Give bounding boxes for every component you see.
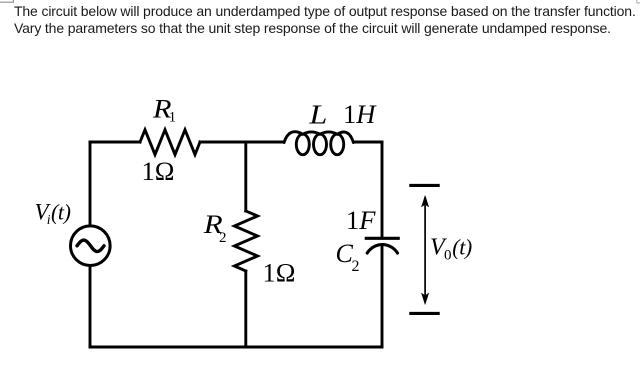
svg-text:1F: 1F: [346, 205, 376, 235]
svg-text:1H: 1H: [343, 99, 377, 129]
wire middle vertical lower: [244, 271, 247, 347]
resistor R2: [234, 211, 257, 271]
capacitor C2 top plate: [366, 237, 398, 240]
inductor L : ring 2: [314, 134, 327, 155]
wire left vertical upper: [89, 142, 92, 225]
output bottom bar: [409, 312, 439, 315]
inductor L : exit arc: [337, 132, 353, 142]
svg-text:1Ω: 1Ω: [263, 258, 296, 288]
table corner mark top-right: [637, 0, 640, 3]
wire middle vertical upper: [244, 142, 247, 211]
wire top-left segment: [90, 141, 140, 144]
resistor R1: [140, 130, 200, 155]
wire R1 to inductor: [200, 141, 284, 144]
svg-text:2: 2: [352, 258, 360, 275]
wire right vertical upper: [381, 142, 384, 238]
source V_i circle: [71, 226, 111, 266]
inductor L : ring 1: [296, 134, 309, 155]
svg-text:L: L: [308, 98, 327, 129]
wire right vertical lower: [381, 246, 384, 347]
svg-text:(t): (t): [51, 200, 71, 225]
svg-text:(t): (t): [452, 235, 472, 260]
svg-text:1: 1: [169, 110, 177, 126]
inductor L : entry arc: [284, 132, 303, 143]
output arrow (double headed): [422, 196, 429, 305]
inductor L : ring 3: [331, 134, 344, 155]
wire inductor to right corner: [353, 141, 382, 144]
capacitor C2 bottom plate (curved): [367, 245, 397, 254]
output top bar: [409, 184, 439, 187]
svg-text:1Ω: 1Ω: [142, 156, 175, 186]
source sine squiggle: [77, 240, 104, 251]
svg-text:0: 0: [444, 248, 452, 264]
inductor L : dome 1-2: [303, 132, 320, 134]
svg-text:2: 2: [219, 230, 227, 246]
wire left vertical lower: [89, 267, 92, 347]
table corner mark top-left: [0, 0, 13, 3]
wire bottom: [90, 346, 382, 349]
header text: [14, 3, 636, 38]
inductor L : dome 2-3: [320, 132, 337, 134]
